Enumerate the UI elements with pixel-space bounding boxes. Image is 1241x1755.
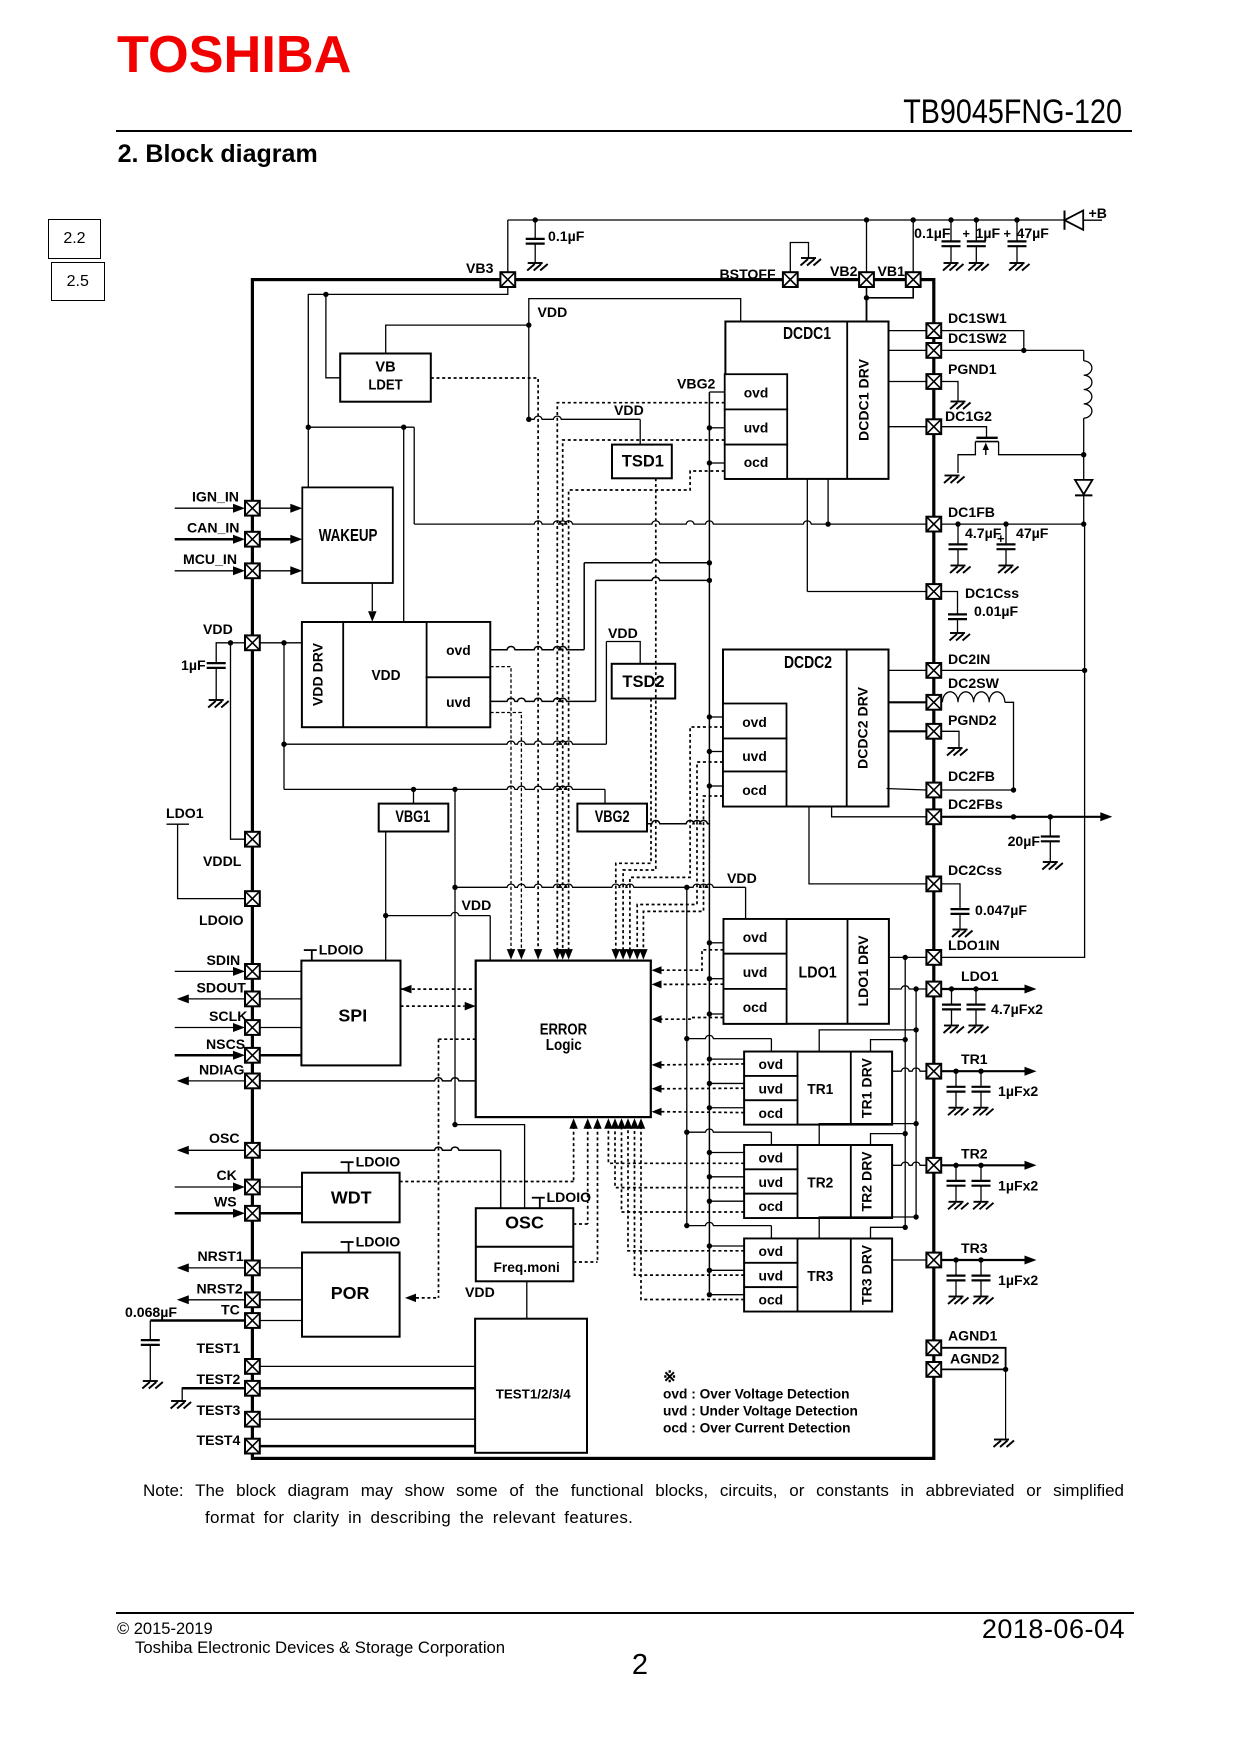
pin AGND1 (926, 1340, 941, 1355)
pin VB2 (859, 272, 874, 287)
pin DC1SW1 (889, 330, 927, 332)
svg-text:TR2 DRV: TR2 DRV (859, 1151, 875, 1212)
svg-text:TR1: TR1 (961, 1051, 988, 1067)
block TR3 ocd (744, 1287, 797, 1311)
wire FET source to ground (958, 442, 975, 473)
block OSC Freq.moni (532, 1198, 545, 1209)
wire DC2FBs external with 20uF (941, 816, 1106, 818)
pin TR1 (892, 1068, 926, 1071)
footer date (825, 1616, 1125, 1643)
svg-text:VDD: VDD (608, 625, 638, 641)
svg-text:TEST2: TEST2 (197, 1371, 241, 1387)
svg-text:CAN_IN: CAN_IN (187, 520, 239, 536)
wire dotted TR2 ovd to error bottom (608, 1126, 744, 1163)
transistor Q1 external FET (975, 438, 998, 455)
node junction VDD to error (383, 913, 388, 918)
pin NSCS (175, 1054, 234, 1057)
svg-text:VB: VB (375, 360, 395, 376)
svg-text:ERROR: ERROR (540, 1022, 587, 1039)
svg-text:TC: TC (221, 1302, 240, 1318)
wire VBG1 down to SPI (385, 832, 387, 961)
revision box 2.5 (51, 262, 105, 301)
pin DC2FBs (832, 807, 927, 817)
wire dotted LDO1 ocd to error side (661, 1018, 724, 1020)
svg-text:SDIN: SDIN (207, 952, 241, 968)
svg-text:OSC: OSC (209, 1130, 240, 1146)
wire POR dotted input (416, 1297, 439, 1299)
node junction cap 4.7uF (955, 521, 960, 526)
wire LDO1 ref stubs (709, 942, 723, 944)
svg-text:LDO1 DRV: LDO1 DRV (855, 935, 871, 1007)
footer rule (116, 1612, 1134, 1614)
svg-text:NRST2: NRST2 (197, 1281, 243, 1297)
node junction DCDC1 fb (825, 521, 830, 526)
svg-text:VDDL: VDDL (203, 853, 242, 869)
wire VDD domain rail (529, 299, 741, 420)
wire wakeup top entry (307, 427, 309, 487)
node junction VB1 drop (911, 217, 916, 222)
block LDO1 ovd (724, 919, 787, 954)
pin LDO1 output (889, 986, 927, 989)
node junction cap 47uF (1003, 521, 1008, 526)
svg-text:VDD: VDD (465, 1284, 495, 1300)
svg-text:VB1: VB1 (878, 263, 906, 279)
svg-text:NRST1: NRST1 (198, 1248, 244, 1264)
svg-text:1µF: 1µF (976, 225, 1001, 241)
svg-text:LDO1IN: LDO1IN (948, 937, 1000, 953)
svg-text:ovd: ovd (759, 1243, 784, 1259)
wire VDD to TSD1 (529, 416, 640, 419)
wire dotted TR1 ovd to error side (661, 1064, 745, 1065)
pin PGND2 (889, 730, 927, 732)
svg-text:ovd: ovd (742, 714, 767, 730)
pin AGND2 (926, 1362, 941, 1377)
svg-text:ovd: ovd (743, 929, 768, 945)
block TR3 uvd (744, 1263, 797, 1287)
wire LDO1 external with caps (941, 988, 1026, 990)
wire dotted DCDC2 uvd to error (637, 762, 723, 951)
wire VDD rail to VBG1 VBG2 (283, 744, 285, 789)
capacitor 4.7uF at DC1FB (949, 524, 968, 565)
block SPI (304, 950, 317, 961)
pin VDD with 1uF cap (228, 640, 233, 645)
block DCDC2 uvd (723, 739, 787, 772)
block TR2 (744, 1145, 892, 1218)
diode D1 reverse protection at +B (1065, 211, 1103, 230)
block WDT (341, 1162, 354, 1173)
svg-text:Freq.moni: Freq.moni (494, 1260, 560, 1275)
node junction VB LDET branch (323, 292, 328, 297)
node junction top rail at C1 (533, 217, 538, 222)
block DCDC2 ovd (723, 704, 787, 739)
svg-text:uvd: uvd (446, 694, 471, 710)
svg-text:SDOUT: SDOUT (197, 980, 247, 996)
pin IGN_IN (175, 507, 234, 509)
wire TR2 external caps (941, 1164, 1026, 1166)
svg-text:LDO1: LDO1 (961, 968, 999, 984)
node junction LDO1 fb rail (913, 986, 918, 991)
node junction cap 47uF (1014, 217, 1019, 222)
wire PGND1 to ground (941, 382, 958, 401)
block DCDC1 (725, 322, 888, 479)
block TR2 ocd (744, 1194, 797, 1218)
svg-text:TSD2: TSD2 (622, 673, 664, 691)
wire NDIAG to ERROR logic (260, 1078, 476, 1081)
svg-text:MCU_IN: MCU_IN (183, 551, 237, 567)
svg-text:ovd: ovd (446, 642, 471, 658)
svg-text:DC2SW: DC2SW (948, 675, 1000, 691)
block DCDC1 ovd (725, 374, 788, 409)
block TR2 uvd (744, 1169, 797, 1193)
svg-text:LDET: LDET (368, 378, 402, 394)
pin DC1FB (414, 521, 926, 524)
wire CAN_IN to wakeup (260, 538, 291, 541)
svg-text:DCDC2: DCDC2 (784, 652, 832, 672)
block LDO1 (724, 919, 889, 1024)
wire dotted TR2 ocd to error bottom (622, 1126, 745, 1212)
svg-text:0.1µF: 0.1µF (548, 228, 585, 244)
block LDO1 uvd (724, 954, 787, 989)
block TR3 (744, 1239, 892, 1312)
svg-text:TR3: TR3 (961, 1240, 988, 1256)
capacitor 47uF at DC1FB polarized (997, 524, 1016, 565)
node junction VDD long drop (452, 787, 457, 792)
svg-text:ocd: ocd (759, 1198, 784, 1214)
svg-text:uvd: uvd (759, 1080, 784, 1096)
svg-text:TEST4: TEST4 (197, 1432, 241, 1448)
svg-text:ovd : Over Voltage Detection: ovd : Over Voltage Detection (663, 1387, 850, 1402)
svg-text:WDT: WDT (331, 1188, 372, 1208)
wire dotted DCDC2 ovd to error (630, 727, 723, 951)
wire TR2 ovd ref stub (709, 1152, 744, 1154)
svg-text:BSTOFF: BSTOFF (720, 266, 777, 282)
wire TR2 uvd ref stub (709, 1176, 744, 1178)
svg-text:NDIAG: NDIAG (199, 1062, 244, 1078)
svg-text:uvd: uvd (759, 1174, 784, 1190)
svg-text:VDD: VDD (614, 402, 644, 418)
page number (560, 1651, 720, 1680)
wire TR3 ovd ref stub (709, 1245, 744, 1247)
inductor L2 at DC2SW (942, 692, 1004, 703)
capacitor 1uFx2 TR2 (947, 1165, 966, 1201)
wire dotted DCDC1 uvd to error (563, 440, 725, 951)
svg-text:VBG1: VBG1 (395, 808, 430, 826)
wire dotted WDT to error bottom (573, 1126, 575, 1182)
pin SDOUT (189, 998, 245, 1000)
svg-text:ocd: ocd (743, 999, 768, 1015)
block VDD regulator with VDD DRV (302, 622, 490, 727)
pin OSC (189, 1149, 245, 1151)
svg-text:ocd: ocd (744, 454, 769, 470)
svg-text:1µFx2: 1µFx2 (998, 1083, 1038, 1099)
capacitor 1uF polarized (967, 220, 986, 263)
svg-text:WS: WS (214, 1194, 237, 1210)
block POR (341, 1242, 354, 1253)
header rule (116, 130, 1132, 132)
svg-text:IGN_IN: IGN_IN (192, 489, 239, 505)
svg-text:AGND2: AGND2 (950, 1351, 999, 1367)
wire AGND1 (941, 1348, 1005, 1370)
svg-text:DC1SW2: DC1SW2 (948, 330, 1007, 346)
pin VB3 (500, 272, 515, 287)
block VDD ovd (427, 622, 491, 677)
svg-text:DC2Css: DC2Css (948, 862, 1002, 878)
svg-text:LDOIO: LDOIO (319, 942, 364, 958)
svg-text:TR3: TR3 (807, 1269, 833, 1285)
wire VB3 stub (507, 220, 509, 272)
pin NRST1 (189, 1267, 245, 1269)
svg-text:ocd: ocd (742, 782, 767, 798)
pin DC2Css (809, 807, 926, 884)
svg-text:47µF: 47µF (1017, 225, 1050, 241)
wire DC1Css cap (941, 592, 957, 602)
svg-text:+: + (963, 227, 970, 241)
svg-text:20µF: 20µF (1008, 833, 1041, 849)
svg-text:+: + (1004, 227, 1011, 241)
capacitor 20uF (1041, 817, 1060, 861)
svg-text:※: ※ (663, 1369, 676, 1386)
block VBG2 (577, 804, 647, 832)
block LDO1 ocd (724, 989, 787, 1024)
svg-text:ovd: ovd (759, 1150, 784, 1166)
note paragraph (143, 1481, 1124, 1528)
node junction VB LDET supply (526, 322, 531, 327)
wire dotted TSD2 to error (616, 699, 651, 952)
wire dotted DCDC1 ovd to error (557, 403, 724, 951)
svg-text:SPI: SPI (338, 1006, 367, 1026)
wire PGND2 ground (941, 731, 959, 747)
wire DC2Css cap 0.047uF (941, 884, 960, 894)
wire DC2IN external rail (941, 669, 1084, 671)
wire mid rail VDD to LDO1 (455, 884, 746, 887)
document title TB9045FNG-120 (869, 95, 1123, 129)
wire dotted to POR chain (439, 1038, 476, 1040)
wire dotted LDO1 ovd to error side (661, 950, 724, 970)
svg-text:ovd: ovd (759, 1056, 784, 1072)
capacitor 1uFx2 TR1 (947, 1071, 966, 1107)
svg-text:VB3: VB3 (466, 260, 494, 276)
svg-text:LDOIO: LDOIO (199, 912, 244, 928)
wire VB1 drop (912, 220, 914, 272)
capacitor 0.1uF at VB3 (526, 220, 545, 263)
block VDD uvd (427, 677, 491, 727)
svg-text:LDOIO: LDOIO (547, 1189, 592, 1205)
wire TR2 top feeds (687, 1129, 772, 1132)
svg-text:TEST1: TEST1 (197, 1340, 241, 1356)
wire dotted VDD ovd to error (490, 667, 511, 951)
pin VB1 (906, 272, 921, 287)
pin SCLK (175, 1027, 234, 1029)
node junction VDD supply branch (281, 640, 286, 645)
svg-text:NSCS: NSCS (206, 1036, 245, 1052)
node junction LDO1IN rail (903, 955, 908, 960)
wire VBG2 output to ref bus (647, 821, 709, 824)
wire rail LDO1 fb (915, 989, 917, 1217)
pin DC1SW2 (889, 349, 927, 351)
wire dotted DCDC2 ocd to error (643, 796, 723, 951)
wire OSC dotted outputs (573, 1223, 587, 1225)
revision box 2.2 (48, 219, 102, 258)
svg-text:DC2FB: DC2FB (948, 768, 995, 784)
block TR1 uvd (744, 1076, 797, 1100)
wire dotted TSD1 to error (623, 478, 656, 951)
block ERROR Logic (476, 961, 651, 1118)
wire dotted Freqmoni to error bottom (597, 1126, 599, 1262)
svg-text:uvd: uvd (744, 420, 769, 436)
wire dotted OSC to error bottom (587, 1126, 589, 1224)
block DCDC2 (723, 650, 889, 807)
svg-text:TEST3: TEST3 (197, 1402, 241, 1418)
svg-text:PGND2: PGND2 (948, 712, 997, 728)
svg-text:DC1SW1: DC1SW1 (948, 310, 1007, 326)
svg-text:CK: CK (217, 1167, 238, 1183)
svg-text:TR2: TR2 (807, 1176, 833, 1192)
pin PGND1 (889, 381, 927, 383)
svg-text:uvd: uvd (742, 748, 767, 764)
svg-text:VDD: VDD (727, 870, 757, 886)
svg-text:AGND1: AGND1 (948, 1328, 997, 1344)
wire VB3 to wakeup domain (308, 287, 508, 427)
svg-text:TSD1: TSD1 (622, 453, 664, 471)
block TR3 ovd (744, 1239, 797, 1263)
svg-text:DC2IN: DC2IN (948, 651, 990, 667)
pin DC1G2 (889, 426, 927, 428)
block TR1 ovd (744, 1052, 797, 1076)
svg-text:0.068µF: 0.068µF (125, 1304, 177, 1320)
wire DC1FB to vertical rail (1083, 523, 1086, 525)
wire TR3 external caps (941, 1259, 1026, 1261)
svg-text:47µF: 47µF (1016, 525, 1049, 541)
svg-text:DCDC1 DRV: DCDC1 DRV (856, 358, 872, 441)
wire dotted LDO1 uvd to error side (661, 983, 724, 985)
pin TR3 (892, 1259, 926, 1261)
node junction VB2 drop (864, 217, 869, 222)
svg-text:TR1 DRV: TR1 DRV (859, 1057, 875, 1118)
wire DCDC1 ref stubs (709, 391, 724, 393)
node junction mid rail (452, 885, 457, 890)
svg-text:TR2: TR2 (961, 1145, 988, 1161)
svg-text:SCLK: SCLK (209, 1008, 248, 1024)
node junction cap 1uF (974, 217, 979, 222)
svg-text:VBG2: VBG2 (595, 808, 630, 826)
svg-text:DC1Css: DC1Css (965, 585, 1019, 601)
pin TEST1 (245, 1359, 260, 1374)
wire TR feed bus (686, 887, 688, 1226)
svg-text:+B: +B (1089, 205, 1107, 221)
wire TR1 ocd ref stub (709, 1107, 744, 1109)
pin CAN_IN (175, 538, 234, 541)
wire DCDC1 css drop (806, 479, 808, 592)
block DCDC1 uvd (725, 409, 788, 444)
capacitor 4.7uFx2 bank (942, 989, 961, 1025)
pin NRST2 (189, 1299, 245, 1301)
wire dotted DCDC1 ocd to error (569, 471, 725, 951)
wire WAKEUP to VDD block arrow (371, 583, 373, 611)
wire DC1FB external (941, 523, 1083, 525)
wire DC1SW2 to inductor (941, 349, 1083, 351)
pin LDO1IN (889, 956, 927, 958)
wire AGND2 to ground (941, 1368, 1005, 1370)
wire dotted TR3 ovd to error bottom (628, 1126, 744, 1251)
svg-text:VDD: VDD (538, 304, 568, 320)
svg-text:0.1µF: 0.1µF (914, 225, 951, 241)
svg-text:uvd: uvd (743, 964, 768, 980)
IC chip boundary (252, 280, 933, 1459)
wire TR1 external caps (941, 1070, 1026, 1072)
wire TR2 ocd ref stub (709, 1200, 744, 1202)
pin TEST3 (245, 1412, 260, 1427)
wire dotted TR2 uvd to error bottom (615, 1126, 744, 1188)
wire dotted TR1 uvd to error side (661, 1087, 745, 1090)
svg-text:VDD: VDD (462, 897, 492, 913)
wire TR3 top feeds (687, 1222, 772, 1225)
wire DC1SW1 external (941, 331, 1024, 351)
svg-text:TR3 DRV: TR3 DRV (859, 1244, 875, 1305)
wire dotted VDD uvd to error (490, 713, 521, 952)
wire VBG2 reference bus (708, 392, 710, 1292)
svg-text:DC1G2: DC1G2 (945, 408, 992, 424)
svg-text:VDD: VDD (372, 668, 401, 684)
svg-text:1µFx2: 1µFx2 (998, 1177, 1038, 1193)
block TR1 ocd (744, 1100, 797, 1124)
diode D2 freewheel (1083, 455, 1085, 480)
wire dotted VB LDET to error (431, 378, 538, 951)
capacitor 0.1uF at VB1 (942, 220, 961, 263)
pin VDDL (245, 832, 260, 847)
wire FET drain to diode node (999, 442, 1084, 455)
svg-text:ocd: ocd (759, 1292, 784, 1308)
wire VDD long vertical (454, 789, 456, 1124)
svg-text:uvd : Under Voltage Detection: uvd : Under Voltage Detection (663, 1404, 858, 1419)
svg-text:4.7µFx2: 4.7µFx2 (991, 1001, 1043, 1017)
wire DC2FB external (941, 789, 1013, 791)
wire branch to VB LDET (326, 294, 340, 377)
wire DC1FB sense drop (413, 427, 415, 524)
inductor L1 (1084, 361, 1092, 418)
wire TR1 uvd ref stub (709, 1082, 744, 1084)
wire VDD ovd output (490, 647, 584, 650)
svg-text:1µFx2: 1µFx2 (998, 1272, 1038, 1288)
wire VDD pin to VDD block (260, 642, 302, 644)
svg-text:POR: POR (331, 1283, 370, 1303)
wire VDD uvd output (490, 698, 595, 701)
svg-text:+: + (997, 531, 1005, 546)
wire TR1 top feeds (687, 1035, 772, 1038)
Toshiba logo (117, 29, 351, 81)
svg-text:LDO1: LDO1 (799, 965, 837, 982)
svg-text:PGND1: PGND1 (948, 361, 997, 377)
svg-text:0.01µF: 0.01µF (974, 603, 1019, 619)
pin WS (175, 1212, 234, 1215)
footer copyright (117, 1620, 213, 1640)
svg-text:DC1FB: DC1FB (948, 504, 995, 520)
pin MCU_IN (175, 570, 234, 572)
block VBG1 (379, 804, 449, 832)
svg-text:DCDC2 DRV: DCDC2 DRV (855, 686, 871, 769)
svg-text:LDOIO: LDOIO (356, 1154, 401, 1170)
wire IGN_IN to wakeup (260, 507, 291, 509)
svg-text:Logic: Logic (546, 1037, 582, 1054)
svg-text:ocd: ocd (759, 1105, 784, 1121)
pin CK (175, 1186, 234, 1188)
block DCDC2 ocd (723, 772, 787, 807)
wire dotted TR1 ocd to error side (661, 1111, 745, 1114)
svg-text:0.047µF: 0.047µF (975, 902, 1027, 918)
wire VDD to ERROR logic (386, 912, 491, 915)
wire VB2 VB1 to DCDC1 drv (867, 287, 914, 322)
wire TR3 uvd ref stub (709, 1269, 744, 1271)
svg-text:TEST1/2/3/4: TEST1/2/3/4 (496, 1387, 571, 1402)
